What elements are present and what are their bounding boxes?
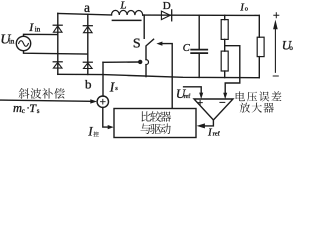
svg-text:D: D xyxy=(163,0,171,12)
diode bridge bottom-right xyxy=(83,62,92,68)
svg-text:I: I xyxy=(87,125,93,139)
diode bridge bottom-left xyxy=(53,62,62,68)
diode D xyxy=(161,10,171,21)
svg-text:o: o xyxy=(289,44,293,52)
switch hook contact xyxy=(146,60,149,65)
svg-text:a: a xyxy=(84,0,90,15)
wire switch tap to sense drop xyxy=(103,61,140,63)
plus sign xyxy=(274,13,279,18)
wire bridge right leg xyxy=(87,14,89,74)
svg-text:c: c xyxy=(22,107,25,115)
svg-text:s: s xyxy=(37,107,40,115)
wire comparator output to switch (control) xyxy=(162,44,172,109)
wire sense drop (crosses bottom rail) xyxy=(102,62,104,96)
wire bottom rail xyxy=(58,74,259,77)
diode bridge top-left xyxy=(53,25,62,32)
wire divider tap to error amp inverting input xyxy=(225,46,240,93)
svg-text:m: m xyxy=(13,101,22,115)
svg-text:ref: ref xyxy=(213,131,221,138)
diode bridge top-right xyxy=(83,26,92,33)
label voltage error text line 1 (dian ya wu cha) xyxy=(236,91,245,101)
wire U_ref to non-inverting input xyxy=(184,87,202,93)
wire switch contact to bottom rail xyxy=(145,65,147,77)
switch fixed contact dot xyxy=(138,60,142,64)
label comparator and drive text line 2 (yu qu dong) xyxy=(140,123,150,134)
wire slope compensation input xyxy=(0,100,90,101)
wire summing junction to comparator box xyxy=(103,107,108,127)
wire error amp output to comparator box xyxy=(205,120,214,126)
svg-text:ref: ref xyxy=(184,93,191,100)
AC source U_in xyxy=(16,36,30,50)
inductor L xyxy=(112,10,143,20)
wire source bottom to right bridge leg xyxy=(24,51,88,54)
label comparator and drive text line 1 (bi jiao qi) xyxy=(141,111,151,121)
wire source top to left bridge leg xyxy=(24,34,58,36)
wire rail to switch xyxy=(143,15,145,38)
block comparator and drive xyxy=(114,109,196,138)
svg-text:L: L xyxy=(119,0,126,11)
svg-text:in: in xyxy=(35,25,41,33)
svg-text:C: C xyxy=(183,43,191,54)
svg-text:S: S xyxy=(133,37,141,52)
U_o polarity arrow xyxy=(273,20,278,73)
resistor divider upper xyxy=(221,15,228,51)
svg-text:in: in xyxy=(9,38,15,46)
svg-text:b: b xyxy=(85,76,92,91)
minus sign xyxy=(273,75,278,77)
wire bridge left leg xyxy=(57,13,59,74)
resistor divider lower xyxy=(221,51,228,77)
label slope compensation (xie bo bu chang) xyxy=(19,88,30,99)
summing junction (slope comp + sensed current) xyxy=(97,96,108,107)
label voltage error text line 2 (fang da qi) xyxy=(240,103,250,113)
capacitor C xyxy=(191,15,207,77)
resistor load xyxy=(257,15,264,77)
svg-text:o: o xyxy=(245,6,248,13)
switch S blade xyxy=(146,39,154,59)
wire top rail (node a rail, bridge + output) xyxy=(58,13,112,15)
op-amp voltage error amplifier xyxy=(194,99,233,120)
